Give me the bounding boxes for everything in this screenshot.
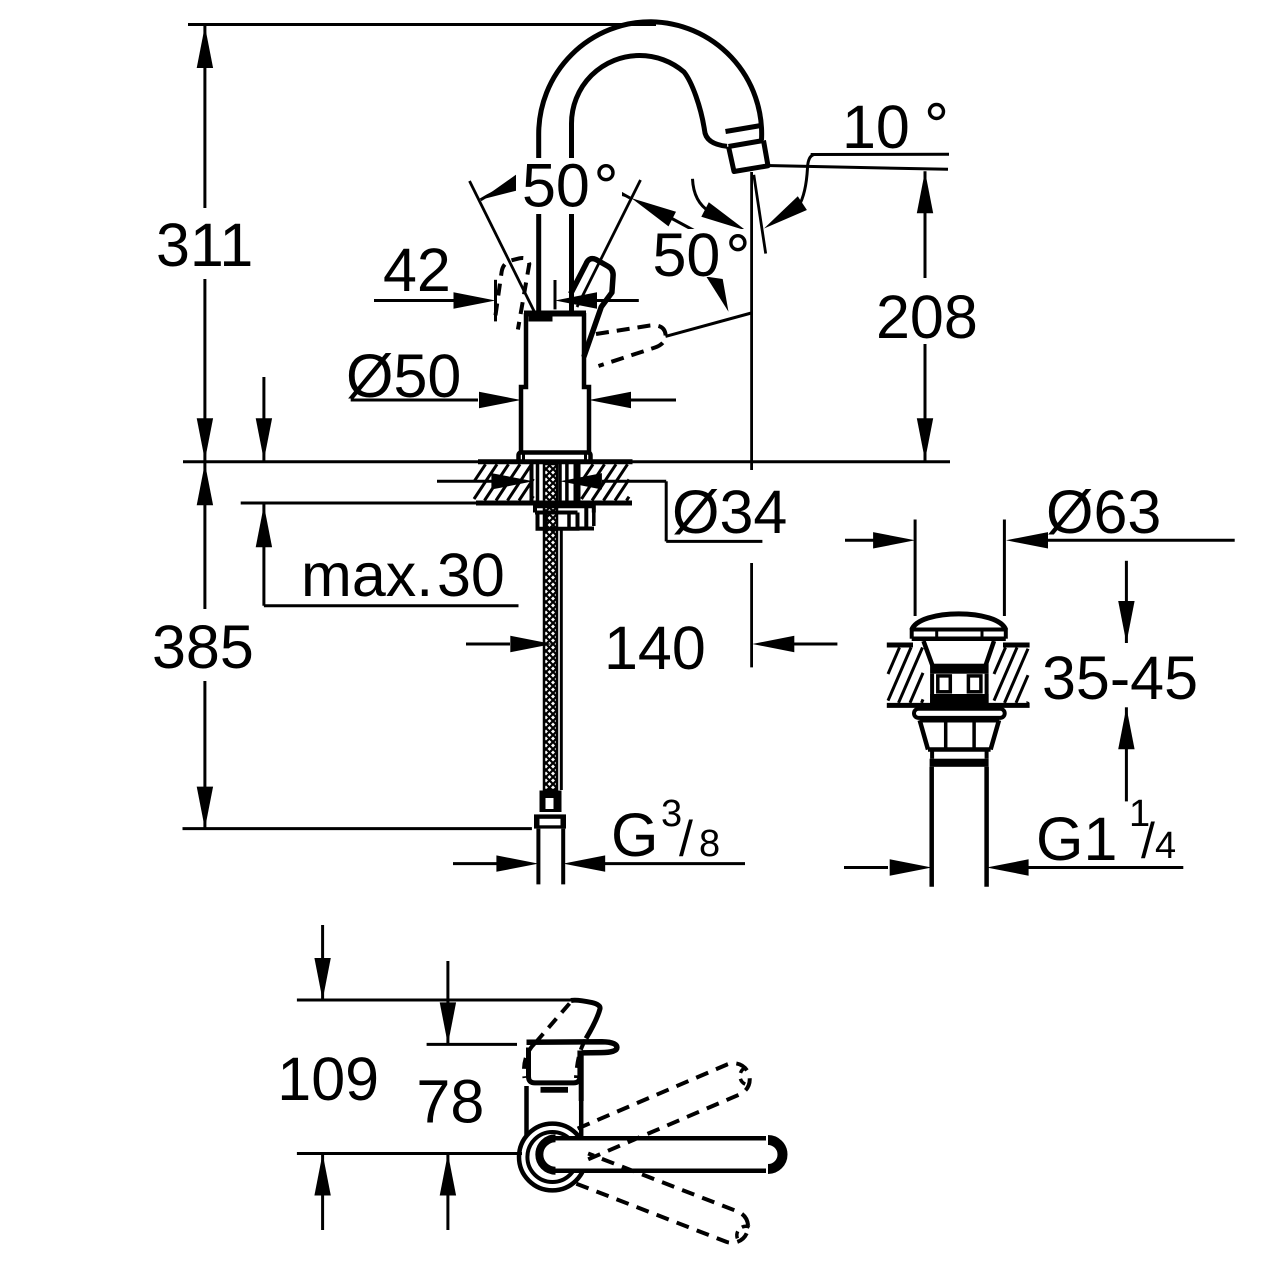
svg-text:Ø63: Ø63 — [1046, 478, 1161, 546]
svg-text:4: 4 — [1155, 825, 1176, 867]
svg-text:208: 208 — [876, 283, 978, 351]
svg-text:385: 385 — [152, 613, 254, 681]
svg-text:8: 8 — [699, 823, 720, 865]
svg-text:Ø50: Ø50 — [346, 342, 461, 410]
svg-text:311: 311 — [156, 211, 253, 279]
svg-text:max.: max. — [301, 541, 433, 609]
svg-text:G1: G1 — [1036, 805, 1117, 873]
svg-text:G: G — [611, 801, 658, 869]
svg-text:109: 109 — [277, 1045, 379, 1113]
svg-text:35-45: 35-45 — [1042, 644, 1198, 712]
svg-text:/: / — [679, 811, 693, 867]
svg-text:Ø34: Ø34 — [672, 478, 787, 546]
svg-text:42: 42 — [383, 236, 451, 304]
svg-text:/: / — [1141, 813, 1155, 869]
svg-text:30: 30 — [437, 541, 505, 609]
svg-text:140: 140 — [604, 614, 706, 682]
svg-text:10: 10 — [842, 93, 910, 161]
svg-text:78: 78 — [416, 1068, 484, 1136]
svg-text:50: 50 — [653, 221, 721, 289]
svg-text:50: 50 — [522, 152, 590, 220]
